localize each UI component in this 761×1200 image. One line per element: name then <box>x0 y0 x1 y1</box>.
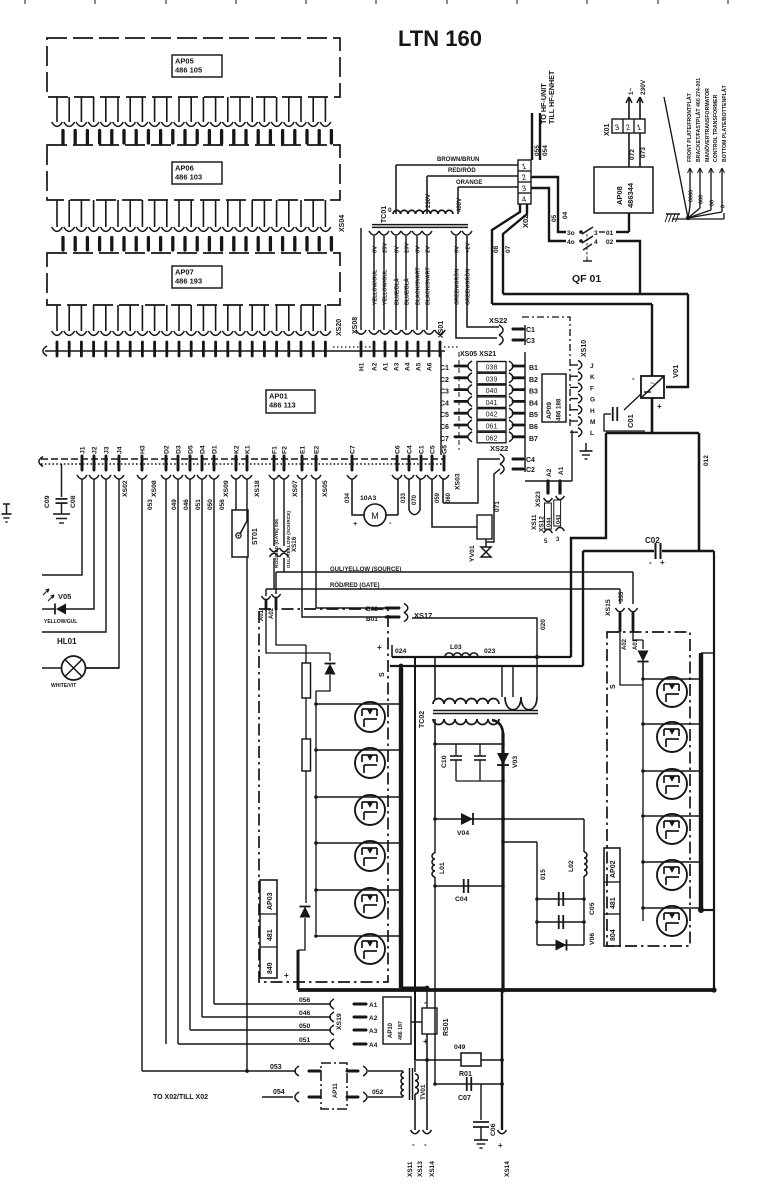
wire V01 AC input left <box>651 304 653 376</box>
transformer TC02 secondary <box>433 719 499 725</box>
wire F2 YELLOW SOURCE <box>280 479 293 572</box>
svg-text:0V: 0V <box>395 246 401 253</box>
svg-text:486 103: 486 103 <box>175 173 202 182</box>
label XS22 lower <box>490 444 508 453</box>
svg-text:849: 849 <box>267 962 274 974</box>
wire AP02 drain bus thick <box>701 653 714 910</box>
svg-text:XS07: XS07 <box>292 480 299 497</box>
inductor L01 <box>432 819 435 886</box>
svg-text:023: 023 <box>484 648 496 655</box>
label YV01 <box>469 545 476 562</box>
crystal YV01 <box>477 515 492 557</box>
lamp HL01 <box>62 656 120 680</box>
breaker QF01 trip link <box>583 234 592 261</box>
svg-text:C10: C10 <box>441 755 448 768</box>
svg-text:BOTTOM PLATE/BOTTENPLÅT: BOTTOM PLATE/BOTTENPLÅT <box>721 84 728 162</box>
svg-text:041: 041 <box>486 400 498 407</box>
wire TC01 tap 230V <box>426 176 432 214</box>
svg-text:054: 054 <box>542 145 549 156</box>
svg-text:L03: L03 <box>450 644 462 651</box>
svg-text:0: 0 <box>388 207 392 214</box>
svg-text:060: 060 <box>446 492 452 503</box>
svg-text:XS10: XS10 <box>581 340 588 357</box>
module AP11 <box>321 1063 347 1109</box>
wire E1 to B01 <box>302 479 386 617</box>
svg-text:A6: A6 <box>427 362 434 371</box>
motor 10A3 <box>353 504 398 528</box>
wire J1 down <box>42 479 82 575</box>
wire gate row <box>266 582 620 589</box>
label QF01 <box>572 273 601 285</box>
svg-text:G5: G5 <box>442 445 449 454</box>
diode AP03 gate clamp <box>316 653 336 691</box>
ground XS10 <box>580 443 593 459</box>
svg-text:+: + <box>657 402 662 411</box>
connector XS15 A02 A01 <box>615 608 639 650</box>
breaker QF01 contact 3 <box>567 227 629 237</box>
svg-text:V03: V03 <box>512 756 519 768</box>
svg-text:02: 02 <box>606 239 614 246</box>
connector comb under AP05 (female) <box>52 97 331 126</box>
svg-text:01: 01 <box>606 230 614 237</box>
label WHITE/VIT <box>51 683 76 689</box>
svg-text:481: 481 <box>267 929 274 941</box>
svg-text:D5: D5 <box>188 445 195 454</box>
svg-text:V06: V06 <box>589 933 596 945</box>
svg-text:J3: J3 <box>104 446 111 454</box>
label AP07 486 193 <box>172 266 222 288</box>
labels chassis parts list <box>686 78 728 162</box>
label C05 <box>589 902 596 915</box>
svg-text:051: 051 <box>195 499 202 510</box>
svg-text:C5: C5 <box>440 412 449 419</box>
label V01 <box>671 365 680 378</box>
svg-text:XS18: XS18 <box>254 480 261 497</box>
wire TC02 sec left down <box>434 719 436 819</box>
svg-text:AP03: AP03 <box>267 892 274 910</box>
module AP03 dashed outline <box>259 609 388 982</box>
wire AC rail lower <box>492 303 652 305</box>
svg-text:~: ~ <box>650 379 655 388</box>
svg-text:-: - <box>412 1140 415 1149</box>
svg-text:073: 073 <box>640 147 647 158</box>
svg-text:3o: 3o <box>567 230 575 237</box>
svg-text:C07: C07 <box>458 1095 471 1102</box>
svg-text:A02: A02 <box>622 638 628 650</box>
connector pin row above AP06 (male) <box>63 131 331 144</box>
svg-text:230V: 230V <box>426 194 432 208</box>
connector XS04 comb under AP06 (female) <box>52 200 331 231</box>
label X02 <box>521 215 530 228</box>
svg-text:YELLOW/GUL: YELLOW/GUL <box>373 269 379 305</box>
svg-text:H: H <box>590 408 595 415</box>
svg-text:XS01: XS01 <box>438 321 445 338</box>
wires chassis bonding 0000/000/00/0 <box>688 168 727 218</box>
wire backplane bus H1 <box>43 346 445 356</box>
transistors AP02 MOSFET bank <box>657 677 687 936</box>
svg-text:00: 00 <box>710 200 716 206</box>
svg-text:053: 053 <box>147 499 154 510</box>
svg-text:YV01: YV01 <box>469 545 476 562</box>
svg-text:BRACKET/FASTPLÅT 460 274-001: BRACKET/FASTPLÅT 460 274-001 <box>695 78 702 162</box>
svg-text:B2: B2 <box>529 377 538 384</box>
svg-text:MANÖVERTRANSFORMATOR: MANÖVERTRANSFORMATOR <box>704 88 711 162</box>
svg-text:XS05 XS21: XS05 XS21 <box>460 351 496 358</box>
connector pins XS01 to bus (male) <box>356 330 445 356</box>
switch ST01 <box>232 510 248 557</box>
svg-text:046: 046 <box>183 499 190 510</box>
svg-text:YELLOW/GUL: YELLOW/GUL <box>44 619 77 625</box>
terminal -XS14 <box>423 1130 437 1177</box>
svg-text:A3: A3 <box>369 1028 378 1035</box>
svg-text:C5: C5 <box>430 445 437 454</box>
wire RED/ROD <box>427 167 518 176</box>
svg-text:TC02: TC02 <box>419 711 426 728</box>
svg-text:J2: J2 <box>92 446 99 454</box>
svg-text:-: - <box>649 558 652 567</box>
svg-text:AP10: AP10 <box>388 1022 394 1038</box>
svg-text:XS03: XS03 <box>455 473 462 490</box>
connector XS05 XS21 rows C1-C7 B1-B7 <box>440 361 538 443</box>
capacitor C05 pair <box>535 892 586 929</box>
wire RS01 to -XS14 <box>426 1060 428 1130</box>
wire 05 X02 to QF01 <box>531 188 566 241</box>
svg-text:C09: C09 <box>44 495 51 508</box>
svg-text:XS08: XS08 <box>352 317 359 334</box>
svg-text:A3: A3 <box>394 362 401 371</box>
label XS05 XS21 <box>460 351 496 358</box>
label TV01 <box>420 1084 427 1100</box>
svg-text:H3: H3 <box>140 445 147 454</box>
diode V03 <box>497 753 509 765</box>
svg-text:+2V: +2V <box>466 242 472 253</box>
svg-text:H1: H1 <box>359 362 366 371</box>
svg-text:4o: 4o <box>567 239 575 246</box>
svg-text:C08: C08 <box>70 495 77 508</box>
wire V03 rail <box>492 720 503 990</box>
svg-text:230V: 230V <box>640 79 647 95</box>
label RS01 <box>443 1018 450 1036</box>
svg-text:054: 054 <box>273 1089 285 1096</box>
svg-text:0V: 0V <box>455 246 461 253</box>
svg-text:RS01: RS01 <box>443 1018 450 1036</box>
svg-text:XS04: XS04 <box>339 215 346 232</box>
svg-text:059: 059 <box>435 492 441 503</box>
connector XS19 pins A1-A4 <box>354 1002 378 1049</box>
label 10A3 <box>360 495 376 502</box>
wire XS22 C4 branch <box>443 459 500 503</box>
svg-text:F: F <box>590 385 594 392</box>
wire AP03 drain bus thick <box>399 668 403 988</box>
label YELLOW/GUL <box>44 619 77 625</box>
svg-text:C05: C05 <box>589 902 596 915</box>
svg-text:XS05: XS05 <box>322 480 329 497</box>
svg-text:RÖD/RED (GATE) 036: RÖD/RED (GATE) 036 <box>273 519 280 568</box>
wire C07 row <box>433 1082 504 1086</box>
svg-text:C06: C06 <box>490 1123 497 1136</box>
module AP08 486344 <box>594 167 653 213</box>
junction chassis star point <box>686 216 690 220</box>
svg-text:XS19: XS19 <box>336 1013 343 1030</box>
svg-text:040: 040 <box>486 388 498 395</box>
svg-text:B7: B7 <box>529 436 538 443</box>
svg-text:804: 804 <box>610 929 617 941</box>
svg-text:049: 049 <box>171 499 178 510</box>
wire 054 row <box>262 1089 293 1097</box>
connector XS23 043 044 to XS11 XS12 <box>531 496 564 545</box>
svg-text:L02: L02 <box>568 860 575 872</box>
svg-text:AP05: AP05 <box>175 57 194 66</box>
junction AP02 bus to 012 <box>698 907 714 913</box>
svg-text:012: 012 <box>703 455 710 466</box>
svg-text:AP09: AP09 <box>546 402 553 419</box>
svg-text:TC01: TC01 <box>381 206 388 223</box>
svg-text:000: 000 <box>699 195 705 204</box>
wire J4 to HL01 <box>85 479 119 668</box>
svg-text:486 187: 486 187 <box>398 1021 404 1040</box>
label XS23 <box>535 491 542 507</box>
svg-text:053: 053 <box>270 1064 282 1071</box>
svg-text:C01: C01 <box>626 414 635 428</box>
wire AP02 A01 inside <box>633 631 643 640</box>
transformer TV01 <box>401 1068 418 1100</box>
wire XS21 dashed spine <box>458 352 460 450</box>
svg-text:XS23: XS23 <box>535 491 542 507</box>
svg-text:YELLOW/GUL: YELLOW/GUL <box>383 269 389 305</box>
connector X02 <box>518 160 531 204</box>
svg-text:V04: V04 <box>457 830 469 837</box>
svg-text:BROWN/BRUN: BROWN/BRUN <box>437 157 479 163</box>
wire 0V GREEN/GRON to XS22 C1 <box>462 231 499 327</box>
svg-text:D3: D3 <box>176 445 183 454</box>
wire A02 stub <box>275 572 277 594</box>
svg-text:B4: B4 <box>529 400 538 407</box>
svg-text:AP06: AP06 <box>175 164 194 173</box>
svg-text:056: 056 <box>299 997 311 1004</box>
label V06 <box>589 933 596 945</box>
label L01 <box>439 862 446 874</box>
wire XS21 pin rail <box>524 352 526 472</box>
svg-text:S: S <box>379 672 386 677</box>
wires AP02 MOSFET interconnect <box>641 677 703 910</box>
connector XS20 comb under AP07 (female) <box>52 305 331 335</box>
svg-text:C7: C7 <box>350 445 357 454</box>
label 230V 1~ <box>628 79 647 95</box>
label XS20 <box>336 319 343 336</box>
svg-text:GUL/YELLOW (SOURCE): GUL/YELLOW (SOURCE) <box>330 567 401 573</box>
wire A01 inside <box>266 609 330 653</box>
wire +XS14 drop <box>501 990 503 1130</box>
wire AP03 plus output <box>284 950 298 990</box>
svg-text:LTN 160: LTN 160 <box>398 26 482 51</box>
connector X01 <box>612 119 645 133</box>
svg-text:XS11: XS11 <box>531 514 538 530</box>
svg-text:020: 020 <box>540 619 547 630</box>
label XS04 <box>339 215 346 232</box>
label C06 <box>490 1123 497 1136</box>
label AP01 486 113 <box>266 390 315 413</box>
svg-text:C04: C04 <box>455 896 468 903</box>
wire V04 row <box>433 817 584 821</box>
wire AP03 bus to rail B <box>399 664 404 669</box>
svg-text:481: 481 <box>610 897 617 909</box>
transformer TC01 core <box>372 225 468 228</box>
svg-text:M: M <box>590 419 595 426</box>
svg-text:050: 050 <box>207 499 214 510</box>
label XS22 upper <box>489 316 507 325</box>
capacitor C06 <box>473 1084 489 1148</box>
svg-text:GREEN/GRÖN: GREEN/GRÖN <box>465 269 472 305</box>
wire ST01 to 053 row <box>246 557 248 1071</box>
wire control bus dotted <box>39 457 444 467</box>
wire 059 to YV01 <box>432 479 477 527</box>
svg-text:L: L <box>590 430 594 437</box>
label C01 <box>626 414 635 428</box>
wire F1 RED GATE <box>270 479 281 589</box>
module AP10 <box>383 997 411 1044</box>
svg-text:K: K <box>590 374 595 381</box>
resistor AP03 R lower <box>302 739 311 903</box>
label XS01 <box>438 321 445 338</box>
svg-text:-: - <box>632 374 635 383</box>
label TILL HF-ENHET <box>547 70 556 124</box>
label TO HF-UNIT <box>539 83 548 124</box>
wire 049 row <box>416 1044 504 1062</box>
wire AP08 to QF01 01 <box>628 213 630 232</box>
svg-text:ORANGE: ORANGE <box>456 180 482 186</box>
wire A01 stub <box>265 589 267 596</box>
svg-text:XS20: XS20 <box>336 319 343 336</box>
wire ORANGE <box>456 180 518 187</box>
svg-text:BLACK/SVART: BLACK/SVART <box>426 267 432 305</box>
wire J3 down <box>42 479 106 632</box>
svg-text:486344: 486344 <box>626 182 635 208</box>
svg-text:486 113: 486 113 <box>269 401 296 410</box>
transistors AP03 MOSFET bank <box>355 702 385 964</box>
svg-text:A1: A1 <box>558 466 565 475</box>
wire 015 branch <box>501 840 547 945</box>
svg-text:400V: 400V <box>457 198 463 212</box>
svg-text:S: S <box>610 684 617 689</box>
wire A02 inside <box>276 609 306 645</box>
svg-text:486 105: 486 105 <box>175 66 202 75</box>
svg-text:035: 035 <box>618 591 625 602</box>
diode AP02 gate clamp <box>638 640 649 678</box>
svg-text:V01: V01 <box>671 365 680 378</box>
wire gate row to XS15 <box>619 589 621 604</box>
terminal -XS11 XS13 <box>407 1130 424 1177</box>
resistor RS01 <box>422 998 437 1046</box>
wire XS10 dashed outline <box>522 317 570 428</box>
svg-text:25V: 25V <box>383 243 389 253</box>
svg-text:E2: E2 <box>314 445 321 454</box>
svg-text:C1: C1 <box>440 365 449 372</box>
connector XS17 B02 B01 <box>366 603 432 623</box>
label XS15 <box>605 599 612 616</box>
inductor L02 <box>584 819 587 945</box>
wire chassis diagonal <box>664 97 688 218</box>
svg-text:C4: C4 <box>526 457 535 464</box>
svg-text:AP07: AP07 <box>175 268 194 277</box>
wire TC01 screen XS08 <box>360 228 362 330</box>
svg-text:BLUE/BLÅ: BLUE/BLÅ <box>394 278 401 305</box>
svg-text:A01: A01 <box>259 609 265 621</box>
module AP06 dashed outline <box>47 145 340 200</box>
wire AC rail upper <box>503 293 688 295</box>
label C09 <box>44 495 51 508</box>
wire stub HL01 left <box>42 667 62 669</box>
svg-text:056: 056 <box>219 499 226 510</box>
terminal +XS14 <box>498 1130 512 1177</box>
module AP09 label <box>542 374 566 422</box>
svg-text:XS22: XS22 <box>489 316 507 325</box>
svg-text:049: 049 <box>454 1044 466 1051</box>
svg-text:07: 07 <box>505 245 512 253</box>
svg-text:XS15: XS15 <box>605 599 612 616</box>
wire TC02 aux left <box>512 666 514 697</box>
svg-text:C1: C1 <box>419 445 426 454</box>
svg-text:043: 043 <box>556 515 562 524</box>
svg-text:M: M <box>371 511 379 521</box>
svg-text:04: 04 <box>562 211 569 219</box>
wire 055 to HF unit <box>532 113 541 160</box>
svg-text:072: 072 <box>629 149 636 160</box>
wires TC01 secondary 0V-25V bundle <box>369 231 432 330</box>
svg-text:AP02: AP02 <box>610 860 617 878</box>
svg-text:XS16: XS16 <box>291 536 298 552</box>
svg-text:+: + <box>284 971 289 980</box>
svg-text:XS12: XS12 <box>539 516 546 532</box>
svg-text:A4: A4 <box>405 362 412 371</box>
label TC01 <box>381 206 388 223</box>
svg-text:+: + <box>377 643 382 652</box>
svg-text:486 193: 486 193 <box>175 277 202 286</box>
svg-text:B5: B5 <box>529 412 538 419</box>
svg-text:034: 034 <box>345 492 351 503</box>
wires AP03 MOSFET interconnect <box>314 702 403 938</box>
svg-text:XS09: XS09 <box>223 480 230 497</box>
wire TV01 out <box>414 1094 416 1130</box>
svg-text:B3: B3 <box>529 389 538 396</box>
label XS16 <box>291 536 298 552</box>
labels H1 A2 A1 A3 A4 A5 A6 <box>359 362 434 371</box>
svg-text:AP08: AP08 <box>615 186 624 205</box>
svg-text:042: 042 <box>486 412 498 419</box>
transformer TC02 core <box>433 711 538 714</box>
junction 020 rail A <box>535 655 539 659</box>
wire 060 <box>443 479 452 503</box>
wire rail B <box>390 665 583 667</box>
svg-text:+: + <box>660 558 665 567</box>
wire 054 to HF unit <box>540 113 549 160</box>
svg-text:046: 046 <box>299 1010 311 1017</box>
svg-text:XS14: XS14 <box>429 1161 436 1177</box>
wire 230V phase in <box>626 97 632 119</box>
rectifier V01 <box>632 374 664 411</box>
breaker QF01 contact 4 <box>567 236 640 293</box>
junction rails <box>425 986 717 993</box>
label V04 <box>457 830 469 837</box>
label ST01 <box>252 528 259 545</box>
connector XS22 upper C1 C3 <box>499 325 535 345</box>
wire AP10 to RS01 <box>411 1021 422 1023</box>
svg-text:C4: C4 <box>440 400 449 407</box>
wire TC02 aux right <box>501 666 503 697</box>
wire V01 + output <box>652 398 699 433</box>
svg-text:RED/RÖD: RED/RÖD <box>448 167 476 174</box>
svg-text:J1: J1 <box>80 446 87 454</box>
ground left margin <box>2 504 12 522</box>
